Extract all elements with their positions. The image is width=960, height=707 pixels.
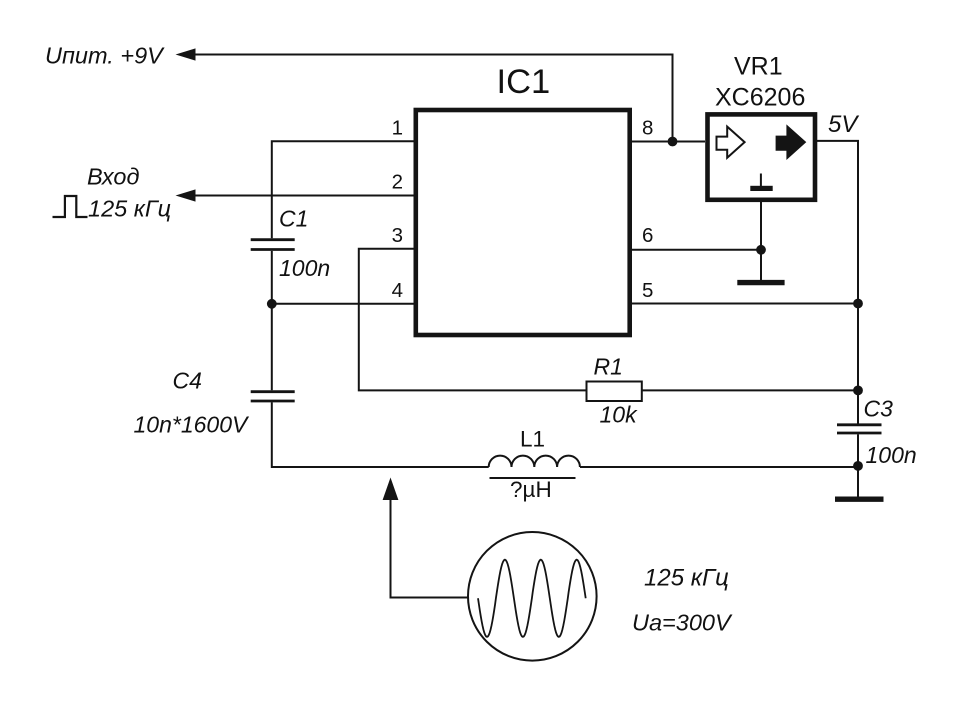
svg-text:1: 1 (392, 117, 403, 140)
node pin8 junction dot (668, 137, 678, 147)
wire oscillator to arrow (391, 500, 469, 598)
inductor L1 (489, 456, 580, 467)
oscillator source circle (468, 532, 597, 661)
wire C3 bottom to ground (857, 434, 859, 497)
arrow input line left (176, 189, 196, 201)
svg-text:Вход: Вход (87, 164, 139, 190)
node D junction dot (853, 461, 863, 471)
svg-text:100n: 100n (866, 442, 917, 468)
wire bottom rail right of L1 (580, 466, 858, 468)
capacitor C3 (837, 425, 882, 433)
wire VR1 output 5V rail (817, 141, 858, 304)
VR1 input arrow (open) (717, 127, 745, 158)
svg-text:C3: C3 (864, 396, 894, 422)
wire node B to C3 top (857, 304, 859, 424)
wire pin 8 to VR1 input (632, 141, 705, 143)
node B junction dot (853, 299, 863, 309)
svg-text:10n*1600V: 10n*1600V (134, 412, 250, 438)
wire R1 right to node C (642, 389, 858, 391)
regulator VR1 box (708, 114, 816, 199)
wire pin 3 to R1 left (359, 249, 587, 391)
arrow to oscillator (up) (383, 478, 399, 501)
wire power +9V top (194, 55, 673, 142)
ground VR1 (737, 280, 784, 285)
svg-text:6: 6 (642, 224, 653, 247)
capacitor C1 (251, 240, 295, 250)
oscillator sine wave (478, 560, 586, 637)
VR1 output arrow (filled) (777, 127, 805, 158)
svg-text:8: 8 (642, 117, 653, 140)
wire VR1 bottom to ground (760, 202, 762, 281)
wire pin 5 to node B (632, 303, 858, 305)
wire pin 2 input (194, 195, 414, 197)
svg-text:5V: 5V (828, 111, 859, 138)
svg-text:IC1: IC1 (497, 63, 551, 101)
wire pin 6 to VR1 ground node (632, 249, 761, 251)
svg-text:?µH: ?µH (510, 477, 552, 502)
svg-text:R1: R1 (594, 354, 623, 380)
svg-text:Ua=300V: Ua=300V (632, 610, 733, 636)
svg-text:100n: 100n (279, 255, 330, 281)
resistor R1 (587, 382, 642, 402)
ground C3 (835, 497, 884, 502)
svg-text:125 кГц: 125 кГц (644, 565, 729, 592)
node C junction dot (853, 386, 863, 396)
svg-text:L1: L1 (520, 427, 545, 452)
svg-text:5: 5 (642, 279, 653, 302)
svg-text:XC6206: XC6206 (715, 84, 805, 112)
svg-text:VR1: VR1 (734, 53, 783, 81)
svg-text:10k: 10k (600, 402, 639, 428)
svg-text:4: 4 (392, 279, 403, 302)
svg-text:Uпит. +9V: Uпит. +9V (45, 43, 165, 69)
wire pin 4 (272, 303, 414, 305)
svg-text:3: 3 (392, 224, 403, 247)
arrow power line left (176, 48, 196, 60)
inductor L1 core line (490, 477, 576, 479)
node A junction dot (267, 299, 277, 309)
svg-text:2: 2 (392, 171, 403, 194)
wire pin 1 to C1 top (272, 141, 414, 238)
node VR1 ground junction dot (756, 245, 766, 255)
VR1 internal ground pin (760, 174, 762, 187)
pulse waveform icon (53, 196, 88, 217)
wire node A to C4 top (271, 304, 273, 390)
svg-text:C4: C4 (173, 368, 202, 394)
capacitor C4 (251, 392, 295, 401)
wire C4 bottom to bottom rail (272, 402, 489, 467)
IC IC1 box (416, 110, 630, 335)
svg-text:C1: C1 (279, 206, 308, 232)
wire C1 bottom to node A (271, 251, 273, 304)
svg-text:125 кГц: 125 кГц (88, 196, 171, 222)
